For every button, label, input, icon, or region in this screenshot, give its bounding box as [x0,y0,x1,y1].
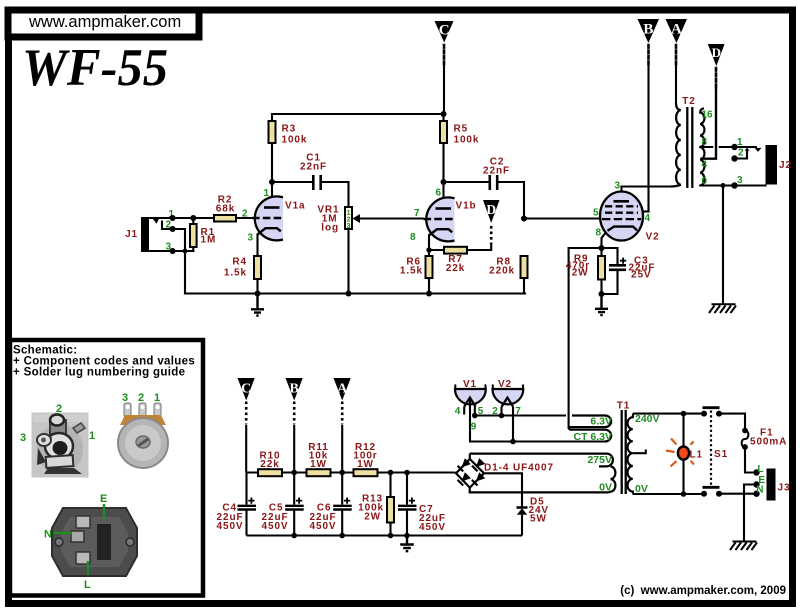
svg-text:450V: 450V [262,521,289,532]
svg-text:WF-55: WF-55 [22,39,168,97]
wire R6 leads [428,250,430,294]
connector A dotted tail [675,45,678,65]
resistor R2 [214,195,236,222]
capacitor C6 [310,473,352,536]
wire S1 to J3 N [719,493,757,495]
legend box [10,340,203,596]
wire C2 right down to R8 top [497,182,524,219]
wire T1 0V to S1 [634,493,704,495]
svg-text:N: N [756,485,763,496]
resistor R7 [444,247,467,274]
lamp L1 [666,414,703,494]
svg-text:2W: 2W [364,512,381,523]
connector triangle B lower [286,378,303,473]
wire bridge AC top to 275V [469,454,471,459]
wire V2 pin4 screen stub [644,210,649,212]
svg-text:1W: 1W [310,459,327,470]
wire V1b cathode pin8 down [428,235,430,250]
svg-text:1: 1 [264,188,270,199]
node heater pin5 [472,413,478,419]
svg-text:+ Solder lug numbering guide: + Solder lug numbering guide [13,367,185,379]
connector A line to T2 primary [675,66,677,103]
connector C dotted tail [443,45,446,65]
svg-text:450V: 450V [419,522,446,533]
svg-text:log: log [321,223,339,234]
node J2 pin2 [731,155,737,161]
connector D line to T2 secondary tap4 [702,89,717,159]
svg-text:100k: 100k [282,135,308,146]
node rail B [291,470,297,476]
wire left drop to ground bus [184,229,186,294]
transformer T1 core [617,401,630,495]
heater V1 bowl [455,379,486,433]
svg-text:220k: 220k [489,266,515,277]
svg-text:1: 1 [154,392,160,404]
wire R5 leads [442,114,444,182]
svg-text:3: 3 [615,181,621,192]
capacitor C1 [300,153,327,191]
svg-text:2W: 2W [572,268,589,279]
wire R4 bottom [256,279,258,294]
capacitor C3 [609,256,655,281]
svg-text:4: 4 [702,160,708,171]
svg-text:D1-4 UF4007: D1-4 UF4007 [484,463,554,474]
transformer T1 HT winding [470,454,616,494]
svg-text:8: 8 [596,228,602,239]
node J1 pin2 [170,226,176,232]
wire heater elevation drop [568,248,570,428]
node heater pin2 [499,413,505,419]
wire V1a plate lead [271,182,273,206]
node VR1 bottom [346,291,352,297]
node V2 cathode [599,245,605,251]
capacitor C4 [217,473,256,536]
svg-text:V1: V1 [463,379,477,390]
svg-text:0: 0 [702,176,708,187]
resistor R8 [489,256,527,278]
wire heater supply run [475,414,566,416]
connector triangle C lower [238,378,255,473]
wire V2 plate to T2 primary bottom [622,185,673,187]
svg-text:T2: T2 [682,96,695,107]
connector triangle D top [708,44,725,66]
copyright [620,585,786,597]
connector B line to V2 screen pin4 [644,66,649,212]
svg-text:3: 3 [122,392,128,404]
ground below R4 [251,294,264,316]
wire V2 cathode pin8 down [602,231,608,248]
jack J1 [125,209,174,253]
svg-text:L1: L1 [690,450,703,461]
node T2 0V junction [721,183,726,188]
ground below C7 [400,536,414,552]
ground below R9 [595,294,608,315]
node R8 top [521,216,527,222]
tube V1a [242,188,306,244]
resistor R5 [440,121,479,146]
connector D dotted tail [715,68,718,88]
capacitor C7 [398,473,446,536]
svg-text:2: 2 [738,148,744,159]
header box [8,10,199,37]
svg-text:22k: 22k [446,263,465,274]
svg-text:6: 6 [436,188,442,199]
node J2 pin3 [731,182,737,188]
svg-text:16: 16 [702,110,714,121]
wire B+ rail top [272,113,444,115]
svg-text:B: B [643,22,653,38]
svg-text:S1: S1 [714,449,728,460]
svg-text:22nF: 22nF [300,162,327,173]
connector triangle A lower [334,378,351,473]
resistor R4 [224,256,261,279]
svg-text:2: 2 [138,392,144,404]
svg-text:T1: T1 [617,401,630,412]
node bus C7 [404,533,410,539]
resistor R11 [307,442,331,476]
wire heater pin5 stub [474,407,476,416]
connector D near V1b [483,200,500,244]
wire V2 plate lead [620,187,622,202]
svg-text:22nF: 22nF [483,166,510,177]
wire V2 cathode node to C3 top [569,248,618,264]
diode D5 [517,497,550,536]
capacitor C2 [483,157,510,191]
svg-text:A: A [671,22,682,38]
resistor R10 [258,451,282,477]
node V1b plate junction [441,111,447,185]
svg-text:4: 4 [645,213,651,224]
svg-text:R5: R5 [454,124,469,135]
node bus C5 [291,533,297,539]
transformer T2 primary winding [671,103,681,187]
svg-text:1: 1 [737,137,743,148]
svg-text:500mA: 500mA [750,437,787,448]
connector triangle C top [435,21,454,43]
node L1 top [681,411,687,417]
svg-text:240V: 240V [635,413,660,425]
svg-text:www.ampmaker.com: www.ampmaker.com [28,13,181,31]
svg-text:1M: 1M [201,235,217,246]
bridge rectifier D1-4 [456,458,554,488]
wire B+ distribution rail [246,471,455,473]
wire R7 right lead up [467,244,491,250]
tube V1b [410,188,477,244]
node heater pin7 CT [510,439,516,445]
transformer T1 primary winding [628,413,660,495]
node rail C7 [404,470,410,476]
tube V2 [593,181,660,243]
svg-text:100k: 100k [454,135,480,146]
node R9 bottom [599,291,605,297]
svg-text:C: C [241,382,251,397]
wire J2 ground drop [722,186,724,304]
svg-text:L: L [757,464,763,475]
svg-text:3: 3 [347,223,351,230]
wire R7 left lead [429,249,444,251]
svg-text:5: 5 [593,208,599,219]
svg-text:1.5k: 1.5k [224,268,247,279]
svg-text:V1a: V1a [285,201,306,212]
svg-text:D: D [712,45,721,60]
node L1 bottom [681,491,687,497]
resistor R13 [358,473,394,536]
wire J3 E to chassis ground [744,485,757,541]
node bus C6 [339,533,345,539]
svg-text:4: 4 [455,406,461,417]
svg-text:8: 8 [410,232,416,243]
wire J2 pin2 switch [735,151,748,159]
resistor R9 [566,254,605,280]
node J2 pin1 [731,144,737,150]
svg-text:J1: J1 [125,229,138,240]
svg-text:3: 3 [737,175,743,186]
svg-text:5W: 5W [530,514,547,525]
svg-text:R3: R3 [282,124,297,135]
node R4 bottom [255,291,261,297]
title WF-55 [22,39,168,97]
resistor R3 [269,121,308,146]
svg-text:25V: 25V [631,270,652,281]
wire T2 secondary tap8 to J2 tip [700,146,756,148]
svg-text:450V: 450V [310,521,337,532]
photo potentiometer [118,392,168,468]
heater V2 bowl [492,379,523,417]
svg-text:C: C [439,23,450,39]
svg-text:1: 1 [89,430,95,442]
potentiometer VR1 [317,205,360,234]
svg-text:CT 6.3V: CT 6.3V [573,431,612,443]
transformer T1 heater winding [569,416,612,444]
svg-text:D: D [486,202,496,217]
svg-text:1W: 1W [357,459,374,470]
node J1 tip [170,215,176,221]
node R1 top [190,215,196,221]
svg-text:8: 8 [702,137,708,148]
svg-text:R4: R4 [232,257,247,268]
wire heater pin9 drop and CT run [470,398,606,442]
svg-text:0V: 0V [599,482,612,494]
resistor R12 [353,442,377,476]
svg-text:2: 2 [56,403,62,415]
wire R9 leads [600,248,602,294]
svg-text:68k: 68k [216,204,235,215]
node rail A [339,470,345,476]
wire heater pin7 drop [512,407,514,442]
wire C1 left [272,181,313,183]
svg-text:3: 3 [20,432,26,444]
wire R1 leads [192,218,194,251]
wire J1 pin3 sleeve [149,250,193,252]
transformer T2 core [682,96,695,188]
transformer T2 secondary winding [700,108,713,187]
svg-text:L: L [84,579,91,591]
wire R3 leads [271,114,273,182]
svg-text:450V: 450V [217,521,244,532]
node bus R13 [388,533,394,539]
svg-text:A: A [337,382,348,397]
wire to V2 grid pin5 [524,217,600,219]
capacitor C5 [262,473,304,536]
wire C2 left [444,181,489,183]
jack J2 [737,137,792,186]
node rail R13 [388,470,394,476]
wire V1a cathode to R4 [256,235,258,257]
resistor R1 [190,224,216,247]
wire VR1 wiper from V1b grid [359,217,423,219]
svg-text:22k: 22k [260,459,279,470]
wire J1 tip to R2 [149,217,214,219]
connector B dotted tail [647,45,650,65]
connector triangle A top [666,19,688,43]
resistor R6 [400,256,433,278]
wire V1b plate lead [442,182,444,206]
node R6 top [426,247,431,252]
wire heater pin4 stub [463,407,465,415]
wire heater pin2 stub [500,407,502,416]
photo IEC inlet [44,493,137,591]
svg-text:J2: J2 [779,160,792,171]
chassis ground below J3 [730,542,757,551]
wire R8 bottom [523,278,525,294]
svg-text:J3: J3 [778,483,791,494]
svg-text:V2: V2 [646,232,660,243]
wire C3 bottom [602,271,618,295]
node J1 pin3 [170,248,188,254]
wire ground bus stage1-2 [185,292,525,294]
svg-text:3: 3 [248,233,254,244]
svg-text:(c) www.ampmaker.com, 2009: (c) www.ampmaker.com, 2009 [620,585,786,597]
node V1a plate junction [269,179,275,185]
svg-text:275V: 275V [587,454,612,466]
svg-text:7: 7 [414,208,420,219]
connector C top line [443,66,445,114]
wire bridge DC right to D5 [484,473,522,506]
connector triangle B top [638,19,660,43]
svg-text:E: E [100,493,107,505]
chassis ground below J2 [709,304,736,313]
svg-text:2: 2 [242,209,248,220]
fuse F1 [719,414,787,473]
svg-text:V1b: V1b [456,201,477,212]
svg-text:6.3V: 6.3V [590,416,612,428]
svg-text:N: N [44,529,52,541]
svg-text:1.5k: 1.5k [400,266,423,277]
node R6 bottom [426,291,432,297]
photo jack socket [20,403,95,478]
wire PSU bottom bus [247,534,523,536]
connector J3 [753,464,790,501]
wire VR1 bottom [347,229,349,294]
wire R2 to V1a grid [236,217,251,219]
wire T2 secondary 0 to J2 pin3 [700,184,765,186]
svg-text:B: B [290,382,299,397]
wire J1 pin2 [162,222,185,230]
switch S1 [701,408,728,497]
wire T1 240V to S1 [634,413,704,415]
svg-text:9: 9 [471,422,477,433]
wire C1 right to VR1 top [322,182,349,207]
svg-text:V2: V2 [498,379,512,390]
